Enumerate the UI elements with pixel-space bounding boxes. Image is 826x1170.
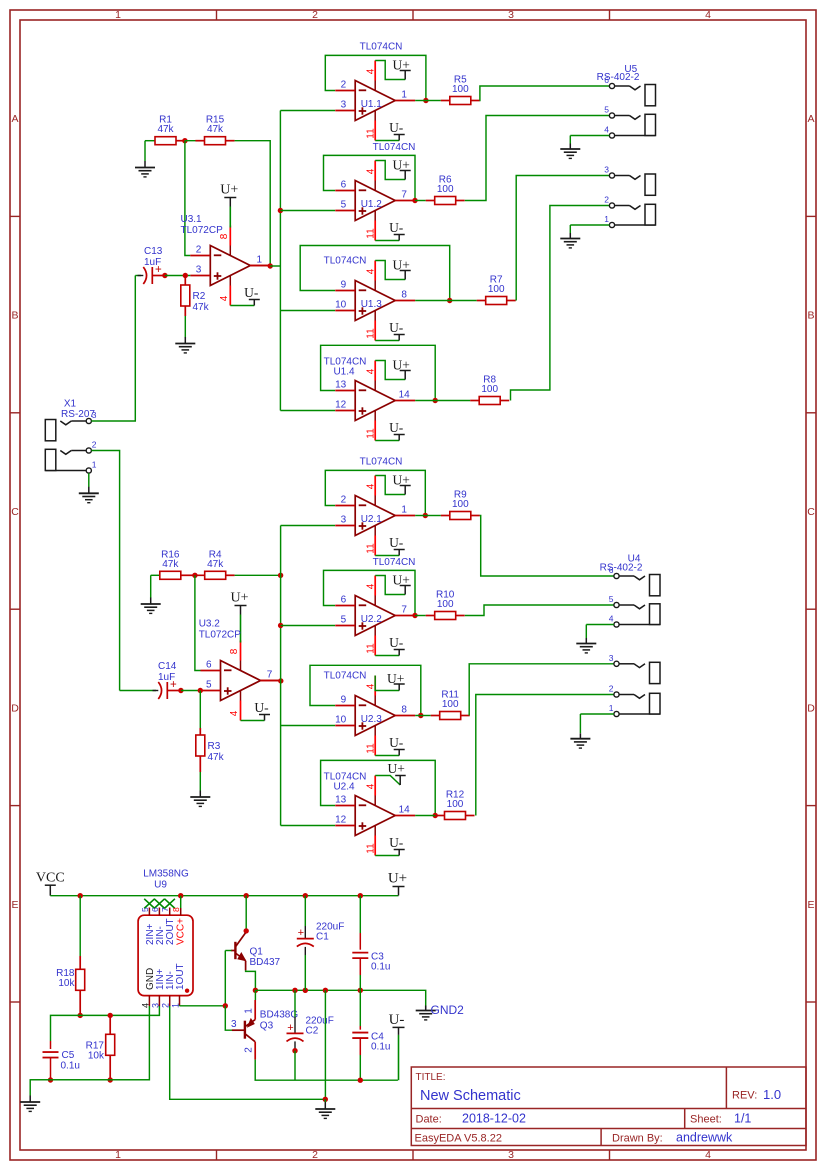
svg-text:REV:: REV: [732, 1090, 757, 1102]
svg-text:0.1u: 0.1u [371, 962, 390, 973]
svg-text:2: 2 [609, 684, 614, 694]
svg-text:10: 10 [335, 715, 347, 726]
svg-text:E: E [807, 899, 814, 911]
svg-text:4: 4 [366, 68, 377, 74]
svg-text:14: 14 [399, 805, 411, 816]
svg-text:10k: 10k [58, 978, 75, 989]
svg-text:47k: 47k [207, 124, 224, 135]
svg-text:5: 5 [341, 615, 347, 626]
svg-text:11: 11 [366, 543, 377, 554]
svg-text:6: 6 [341, 180, 347, 191]
svg-text:47k: 47k [193, 302, 210, 313]
svg-text:R3: R3 [208, 741, 221, 752]
svg-text:U-: U- [389, 735, 404, 750]
svg-text:U+: U+ [230, 591, 248, 606]
svg-text:+: + [298, 927, 304, 939]
svg-text:1: 1 [604, 214, 609, 224]
svg-text:3: 3 [609, 653, 614, 663]
svg-text:4: 4 [366, 268, 377, 274]
svg-text:TL072CP: TL072CP [199, 630, 242, 641]
svg-text:Drawn By:: Drawn By: [612, 1133, 663, 1145]
svg-text:13: 13 [335, 795, 347, 806]
svg-text:U3.1: U3.1 [181, 214, 203, 225]
svg-text:47k: 47k [208, 752, 225, 763]
svg-text:U-: U- [389, 120, 404, 135]
svg-text:3: 3 [508, 9, 514, 21]
svg-text:U+: U+ [387, 671, 404, 686]
svg-text:B: B [807, 310, 814, 322]
svg-text:2: 2 [196, 245, 202, 256]
svg-text:TL074CN: TL074CN [324, 671, 367, 682]
svg-text:U-: U- [389, 835, 404, 850]
svg-text:11: 11 [366, 843, 377, 854]
svg-text:4: 4 [366, 583, 377, 589]
svg-text:U1.4: U1.4 [333, 367, 355, 378]
svg-text:100: 100 [481, 384, 498, 395]
svg-text:D: D [11, 702, 19, 714]
svg-text:andrewwk: andrewwk [676, 1131, 733, 1145]
svg-text:U9: U9 [154, 880, 167, 891]
svg-text:5: 5 [604, 105, 609, 115]
svg-text:6: 6 [604, 75, 609, 85]
svg-text:4: 4 [604, 125, 609, 135]
svg-text:8: 8 [171, 907, 181, 912]
svg-text:5: 5 [609, 594, 614, 604]
svg-text:3: 3 [92, 410, 97, 420]
svg-text:3: 3 [196, 265, 202, 276]
svg-text:U-: U- [389, 320, 404, 335]
svg-text:1.0: 1.0 [763, 1087, 781, 1102]
svg-text:7: 7 [267, 670, 273, 681]
svg-text:D: D [807, 702, 815, 714]
svg-text:7: 7 [401, 605, 407, 616]
svg-text:6: 6 [150, 907, 160, 912]
svg-text:13: 13 [335, 380, 347, 391]
svg-text:New Schematic: New Schematic [420, 1088, 521, 1104]
svg-text:11: 11 [366, 428, 377, 439]
svg-text:10: 10 [335, 300, 347, 311]
svg-text:1: 1 [115, 9, 121, 21]
svg-text:5: 5 [140, 907, 150, 912]
svg-text:U2.2: U2.2 [361, 614, 383, 625]
svg-text:Q1: Q1 [250, 947, 264, 958]
svg-text:0.1u: 0.1u [61, 1061, 80, 1072]
svg-text:R2: R2 [193, 291, 206, 302]
svg-text:4: 4 [366, 783, 377, 789]
svg-text:U+: U+ [393, 257, 410, 272]
svg-text:47k: 47k [162, 559, 179, 570]
svg-text:VCC: VCC [36, 871, 65, 886]
svg-text:2: 2 [604, 195, 609, 205]
svg-text:U+: U+ [393, 572, 410, 587]
svg-text:U-: U- [389, 1012, 405, 1028]
svg-text:RS-402-2: RS-402-2 [600, 563, 643, 574]
svg-text:8: 8 [229, 648, 240, 654]
svg-text:1: 1 [401, 505, 407, 516]
svg-text:U+: U+ [220, 183, 238, 198]
svg-text:4: 4 [705, 1149, 711, 1161]
svg-text:U+: U+ [388, 871, 407, 887]
svg-text:11: 11 [366, 643, 377, 654]
svg-text:U1.2: U1.2 [361, 199, 383, 210]
svg-text:GND2: GND2 [431, 1003, 465, 1017]
svg-text:11: 11 [366, 328, 377, 339]
svg-text:BD437: BD437 [250, 957, 281, 968]
svg-text:C13: C13 [144, 246, 163, 257]
svg-text:TL072CP: TL072CP [181, 225, 224, 236]
svg-text:E: E [11, 899, 18, 911]
svg-text:11: 11 [366, 743, 377, 754]
svg-text:U3.2: U3.2 [199, 619, 221, 630]
svg-text:2: 2 [341, 495, 347, 506]
svg-text:X1: X1 [64, 399, 77, 410]
svg-text:2: 2 [312, 9, 318, 21]
svg-text:RS-402-2: RS-402-2 [597, 72, 640, 83]
svg-text:1: 1 [244, 1008, 255, 1014]
svg-text:4: 4 [705, 9, 711, 21]
svg-text:EasyEDA V5.8.22: EasyEDA V5.8.22 [415, 1133, 502, 1145]
svg-text:12: 12 [335, 815, 347, 826]
svg-text:1: 1 [401, 90, 407, 101]
svg-text:U1.3: U1.3 [361, 299, 383, 310]
svg-text:4: 4 [609, 614, 614, 624]
svg-text:4: 4 [219, 295, 230, 301]
svg-text:C5: C5 [62, 1050, 75, 1061]
svg-text:TL074CN: TL074CN [360, 42, 403, 53]
svg-text:U+: U+ [393, 472, 410, 487]
svg-text:47k: 47k [207, 559, 224, 570]
svg-text:3: 3 [341, 515, 347, 526]
svg-text:TL074CN: TL074CN [360, 457, 403, 468]
svg-text:3: 3 [341, 100, 347, 111]
svg-text:0.1u: 0.1u [371, 1042, 390, 1053]
svg-text:3: 3 [508, 1149, 514, 1161]
svg-text:1: 1 [609, 703, 614, 713]
svg-text:U+: U+ [388, 761, 405, 776]
svg-text:A: A [807, 113, 814, 125]
svg-text:VCC+: VCC+ [175, 918, 186, 945]
svg-text:TL074CN: TL074CN [373, 142, 416, 153]
svg-text:100: 100 [447, 799, 464, 810]
svg-text:1/1: 1/1 [734, 1112, 751, 1126]
svg-text:2: 2 [341, 80, 347, 91]
svg-text:U2.3: U2.3 [361, 714, 383, 725]
svg-text:4: 4 [366, 368, 377, 374]
svg-text:2: 2 [312, 1149, 318, 1161]
svg-text:9: 9 [341, 695, 347, 706]
svg-text:U2.1: U2.1 [361, 514, 383, 525]
svg-text:Q3: Q3 [260, 1021, 274, 1032]
svg-text:1uF: 1uF [158, 672, 175, 683]
svg-text:U1.1: U1.1 [361, 99, 383, 110]
svg-text:TITLE:: TITLE: [416, 1072, 446, 1083]
svg-text:U-: U- [389, 635, 404, 650]
svg-text:Date:: Date: [416, 1114, 442, 1126]
svg-text:BD438G: BD438G [260, 1010, 299, 1021]
svg-text:2018-12-02: 2018-12-02 [462, 1112, 526, 1126]
svg-text:1OUT: 1OUT [175, 963, 186, 990]
svg-text:B: B [11, 310, 18, 322]
svg-text:4: 4 [229, 710, 240, 716]
svg-text:C: C [11, 506, 19, 518]
svg-text:TL074CN: TL074CN [373, 557, 416, 568]
svg-text:U-: U- [389, 420, 404, 435]
svg-text:12: 12 [335, 400, 347, 411]
svg-text:1: 1 [257, 255, 263, 266]
svg-text:8: 8 [401, 290, 407, 301]
svg-text:9: 9 [341, 280, 347, 291]
svg-text:U2.4: U2.4 [333, 782, 355, 793]
svg-text:3: 3 [604, 165, 609, 175]
svg-text:+: + [287, 1022, 293, 1034]
svg-text:8: 8 [401, 705, 407, 716]
svg-text:U-: U- [244, 285, 259, 300]
svg-text:47k: 47k [157, 124, 174, 135]
svg-text:6: 6 [206, 660, 212, 671]
svg-text:1uF: 1uF [144, 257, 161, 268]
svg-text:4: 4 [366, 168, 377, 174]
svg-text:U-: U- [389, 220, 404, 235]
svg-text:2: 2 [92, 440, 97, 450]
svg-text:100: 100 [437, 599, 454, 610]
svg-text:U+: U+ [393, 357, 410, 372]
svg-text:A: A [11, 113, 18, 125]
svg-text:7: 7 [401, 190, 407, 201]
svg-text:TL074CN: TL074CN [324, 256, 367, 267]
svg-text:U+: U+ [393, 57, 410, 72]
svg-text:5: 5 [341, 200, 347, 211]
svg-text:5: 5 [206, 680, 212, 691]
svg-text:U-: U- [254, 700, 269, 715]
svg-text:6: 6 [341, 595, 347, 606]
svg-text:C14: C14 [158, 661, 177, 672]
svg-text:2: 2 [244, 1047, 255, 1053]
svg-text:100: 100 [488, 284, 505, 295]
svg-text:1: 1 [92, 460, 97, 470]
svg-text:Sheet:: Sheet: [690, 1114, 722, 1126]
svg-text:C: C [807, 506, 815, 518]
svg-text:4: 4 [366, 483, 377, 489]
svg-text:C2: C2 [306, 1026, 319, 1037]
svg-text:C1: C1 [316, 932, 329, 943]
svg-text:100: 100 [442, 699, 459, 710]
svg-text:100: 100 [452, 84, 469, 95]
svg-text:6: 6 [609, 565, 614, 575]
svg-text:U+: U+ [393, 157, 410, 172]
svg-text:U-: U- [389, 535, 404, 550]
svg-text:100: 100 [437, 184, 454, 195]
svg-text:7: 7 [160, 907, 170, 912]
svg-text:LM358NG: LM358NG [143, 869, 189, 880]
svg-text:14: 14 [399, 390, 411, 401]
svg-text:11: 11 [366, 128, 377, 139]
svg-text:1: 1 [115, 1149, 121, 1161]
svg-text:3: 3 [231, 1019, 237, 1030]
svg-text:10k: 10k [88, 1051, 105, 1062]
svg-text:11: 11 [366, 228, 377, 239]
svg-text:100: 100 [452, 499, 469, 510]
